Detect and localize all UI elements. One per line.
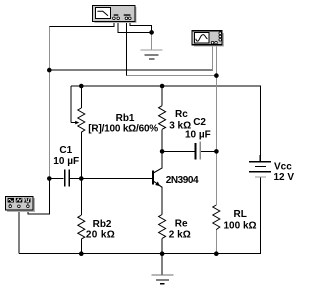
- wire vcc rail top: [81, 85, 261, 87]
- svg-text:10 µF: 10 µF: [185, 129, 211, 140]
- wire rl bottom lead: [215, 230, 217, 254]
- wire input to C1: [49, 178, 63, 180]
- wire bode OUT- drop: [129, 20, 131, 27]
- wire c2 right: [200, 150, 216, 152]
- resistor Rb2 zigzag: [78, 215, 85, 239]
- svg-text:100 kΩ: 100 kΩ: [224, 221, 257, 232]
- node rl bottom: [214, 251, 219, 256]
- wire c2 left: [162, 150, 195, 152]
- node base: [79, 176, 84, 181]
- svg-text:RL: RL: [234, 209, 247, 220]
- node pot top: [79, 84, 84, 89]
- wire left rail lower (to function generator): [48, 179, 50, 214]
- wire ground stub top: [151, 32, 153, 49]
- fg terminals: [9, 205, 29, 208]
- oscilloscope U-XSC: [192, 31, 224, 47]
- svg-text:2 kΩ: 2 kΩ: [169, 230, 191, 241]
- bode terminals: [113, 17, 132, 20]
- svg-text:Rb1: Rb1: [116, 113, 135, 124]
- fg display sine: [8, 198, 14, 203]
- svg-text:2N3904: 2N3904: [166, 175, 199, 186]
- wire scope chA vertical: [212, 45, 214, 70]
- wire pot bottom to base rail: [80, 132, 82, 215]
- node scope chB tap: [214, 73, 219, 78]
- wire rc bottom stub: [161, 129, 163, 151]
- node rc top: [160, 84, 165, 89]
- wire right rail lower: [260, 177, 262, 254]
- wire rc top stub: [161, 86, 163, 106]
- capacitor C1: [65, 170, 69, 187]
- wire collector: [161, 151, 163, 168]
- wire fg common drop: [18, 208, 20, 254]
- bode OUT label smudge: [124, 14, 131, 16]
- svg-text:C1: C1: [59, 145, 72, 156]
- wire ground stub bottom: [161, 254, 163, 275]
- svg-text:Rb2: Rb2: [93, 219, 112, 230]
- ground symbol top (scope ground): [141, 50, 163, 59]
- wire scope chB vertical: [215, 45, 217, 152]
- scope bottom terminals: [211, 41, 217, 44]
- fg terminal marks: [9, 203, 11, 206]
- svg-text:20 kΩ: 20 kΩ: [86, 229, 115, 240]
- wire pot top stub: [80, 86, 82, 108]
- wire input rail branch: [49, 69, 213, 71]
- node rb2 bottom: [79, 251, 84, 256]
- battery Vcc: [249, 155, 271, 177]
- wire fg plus horizontal: [28, 213, 50, 215]
- svg-text:[R]/100 kΩ/60%: [R]/100 kΩ/60%: [88, 124, 158, 135]
- wire rb2 bottom stub: [80, 239, 82, 254]
- wire bode OUT- horizontal: [130, 25, 152, 27]
- potentiometer wiper bracket: [71, 86, 81, 123]
- transistor emitter arrow: [155, 182, 160, 187]
- bode IN label smudge: [114, 14, 119, 16]
- svg-text:Rc: Rc: [175, 109, 188, 120]
- svg-text:12 V: 12 V: [274, 172, 295, 183]
- node emitter ground: [160, 251, 165, 256]
- wire rl top lead: [215, 151, 217, 205]
- wire bode OUT+ to output node: [127, 74, 217, 76]
- resistor RL zigzag: [213, 205, 220, 230]
- wire fg plus stub: [27, 208, 29, 215]
- wire ground rail bottom: [19, 253, 261, 255]
- node C1 input: [47, 176, 52, 181]
- resistor Rb1 potentiometer zigzag: [78, 108, 85, 132]
- resistor Re zigzag: [159, 215, 166, 239]
- node scope gnd: [149, 30, 154, 35]
- svg-text:10 µF: 10 µF: [53, 156, 79, 167]
- wire emitter down: [161, 187, 163, 214]
- ground symbol bottom (emitter ground): [152, 275, 174, 284]
- capacitor C2: [196, 142, 201, 160]
- gray instrument wires: [49, 27, 216, 254]
- wire re bottom stub: [161, 238, 163, 253]
- bode plotter U-XBP: [93, 6, 137, 24]
- node collector: [160, 149, 165, 154]
- potentiometer arrow head: [75, 121, 79, 125]
- wire left rail upper (signal input, gray): [48, 27, 50, 179]
- fg display triangle: [16, 198, 22, 203]
- wire C1 to base node: [68, 178, 81, 180]
- wire bode OUT+ drop: [126, 20, 128, 76]
- wire input top horizontal: [49, 26, 115, 28]
- function generator U-XFG: [6, 197, 35, 213]
- transistor Q1 2N3904: [153, 168, 163, 188]
- node input rail top: [47, 68, 52, 73]
- wire right rail upper: [260, 86, 262, 162]
- svg-text:Re: Re: [175, 219, 188, 230]
- wire bode IN+ drop: [113, 20, 115, 28]
- wire down to ground node: [151, 26, 153, 33]
- wire base: [81, 178, 152, 180]
- wire bode IN- to ground node: [118, 31, 151, 33]
- svg-text:C2: C2: [193, 117, 206, 128]
- node output: [214, 149, 219, 154]
- scope side terminals: [219, 32, 222, 41]
- resistor Rc zigzag: [159, 106, 166, 130]
- wire bode IN- drop: [117, 20, 119, 33]
- fg display square: [24, 198, 30, 203]
